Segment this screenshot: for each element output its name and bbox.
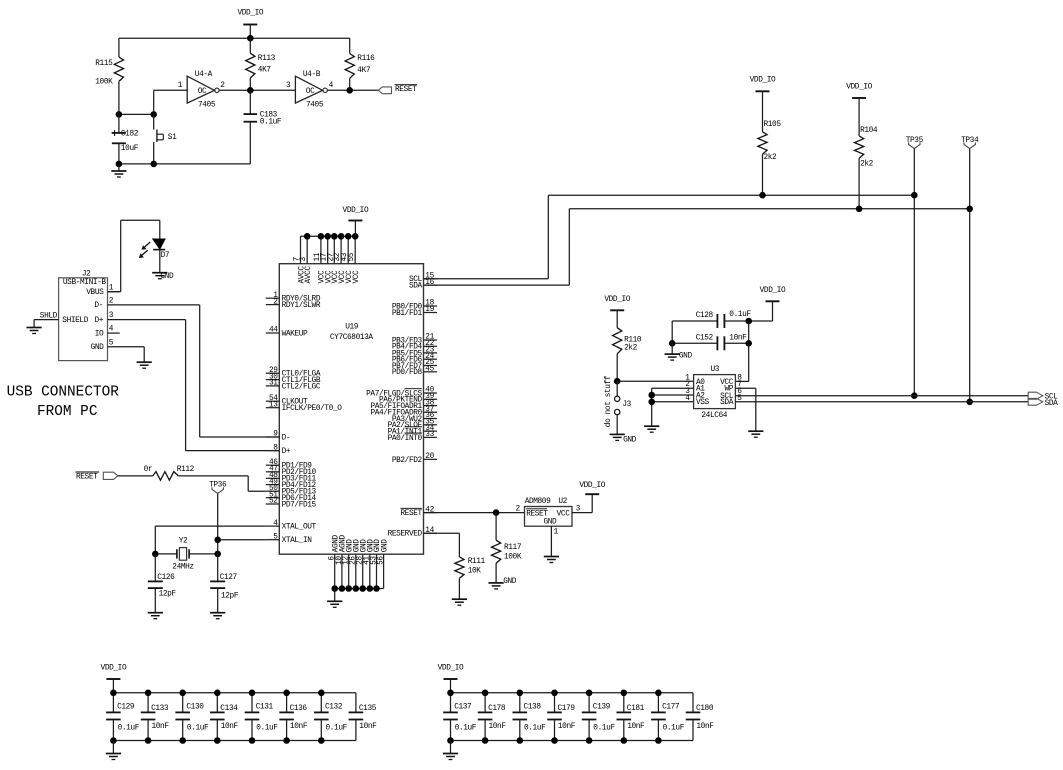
svg-text:VDD_IO: VDD_IO [604, 296, 630, 304]
label USB CONNECTOR [7, 384, 120, 400]
resistor R113 4K7 [246, 38, 276, 90]
svg-text:AVCC: AVCC [305, 266, 313, 284]
svg-text:PB2/FD2: PB2/FD2 [392, 457, 423, 465]
svg-text:7405: 7405 [198, 102, 216, 110]
power symbol VDD_IO (cap bank at x=113) [101, 664, 127, 693]
svg-text:RESERVED: RESERVED [388, 531, 423, 539]
pin 3 label U2 [576, 505, 581, 513]
svg-text:3: 3 [286, 82, 291, 90]
svg-text:VCC: VCC [353, 270, 361, 284]
svg-text:2: 2 [109, 297, 114, 305]
svg-text:SHIELD: SHIELD [62, 317, 88, 325]
svg-text:C139: C139 [593, 704, 611, 712]
pin 5 XTAL_IN (U19 left) [266, 533, 312, 545]
junction R117 top [493, 509, 500, 516]
op-amp U4-B 7405 inverter [295, 71, 327, 110]
svg-text:D+: D+ [94, 317, 103, 325]
svg-text:0.1uF: 0.1uF [187, 725, 209, 733]
capacitor C126 12pF [148, 554, 177, 613]
svg-text:RESET: RESET [395, 86, 417, 94]
svg-text:D-: D- [94, 302, 103, 310]
svg-text:5: 5 [273, 533, 278, 541]
capacitor C128 0.1uF [672, 311, 751, 328]
svg-text:CTL2/FLGC: CTL2/FLGC [282, 383, 321, 391]
pin 23 PB5/FD5 (U19 right) [392, 347, 437, 359]
pin 2 A1 (U3) [652, 381, 706, 393]
svg-text:GND: GND [381, 539, 389, 553]
pin 15 SCL (U19 right) [409, 273, 437, 285]
resistor R104 2k2 [854, 98, 877, 209]
pin 6 SCL (U3) [720, 388, 1028, 401]
capacitor C127 12pF [210, 554, 239, 613]
power symbol VDD_IO (R105) [750, 77, 776, 92]
svg-text:D+: D+ [282, 448, 291, 456]
capacitor C183 0.1uF [244, 90, 282, 164]
op-amp U4-A 7405 inverter [187, 71, 219, 110]
svg-text:RESET: RESET [526, 510, 548, 518]
svg-text:5: 5 [109, 339, 114, 347]
svg-text:VDD_IO: VDD_IO [760, 287, 786, 295]
wire U19 pin14 to R111 [424, 533, 460, 557]
wire VDD_IO bus [119, 37, 350, 39]
svg-text:GND: GND [91, 344, 105, 352]
pin 30 CTL1/FLGB (U19 left) [266, 373, 321, 385]
svg-text:C177: C177 [662, 704, 680, 712]
pin 4 label U4-B [329, 82, 334, 90]
pin 31 CTL2/FLGC (U19 left) [266, 380, 321, 392]
pin 2 D- [94, 297, 199, 310]
pin 1 label U4-A [178, 82, 183, 90]
power symbol VDD_IO (U19) [343, 207, 369, 236]
resistor R112 0r [153, 466, 195, 480]
svg-text:ADM809: ADM809 [525, 498, 551, 506]
pin 37 PA4/FIFOADR0 (U19 right) [370, 406, 437, 418]
wire crystal left [155, 553, 177, 555]
wire XTAL_IN [218, 539, 266, 541]
svg-text:3: 3 [300, 257, 308, 262]
junction dots cap bank top [447, 690, 662, 697]
wire A1/A2/VSS to ground [651, 388, 653, 426]
svg-text:FROM PC: FROM PC [37, 404, 98, 420]
svg-text:GND: GND [679, 352, 693, 360]
wire D+ to chip [186, 320, 280, 451]
svg-text:U19: U19 [345, 324, 359, 332]
test point TP36 [209, 481, 227, 493]
wire LED to ground [159, 250, 161, 273]
svg-text:SDA: SDA [720, 399, 734, 407]
svg-text:10nF: 10nF [152, 723, 170, 731]
svg-text:2k2: 2k2 [764, 154, 778, 162]
pin 2 label U2 [516, 505, 521, 513]
svg-text:C136: C136 [290, 705, 308, 713]
svg-text:D7: D7 [161, 252, 170, 260]
svg-text:5: 5 [737, 395, 742, 403]
pin 4 XTAL_OUT (U19 left) [266, 520, 317, 532]
svg-text:SDA: SDA [409, 283, 423, 291]
svg-text:R113: R113 [258, 55, 276, 63]
ground (C126) [148, 613, 163, 619]
junction dots cap bank top [110, 690, 325, 697]
svg-text:10nF: 10nF [627, 723, 645, 731]
wire C128-C152 right to U3 VCC [735, 321, 748, 381]
svg-text:8: 8 [273, 444, 278, 452]
wire J2 VBUS to LED D7 [108, 220, 160, 291]
svg-text:RESET: RESET [76, 474, 98, 482]
ground (U3 address pins) [644, 426, 659, 432]
svg-text:44: 44 [269, 327, 278, 335]
capacitor C139 0.1uF [582, 693, 616, 741]
svg-text:VCC: VCC [557, 510, 571, 518]
svg-text:WAKEUP: WAKEUP [282, 330, 308, 338]
svg-text:PD0/FD8: PD0/FD8 [392, 369, 423, 377]
svg-text:VDD_IO: VDD_IO [846, 84, 872, 92]
pin 33 PA0/INT0 (U19 right) [388, 431, 437, 443]
svg-text:SHLD: SHLD [40, 312, 58, 320]
junction VSS [648, 399, 655, 406]
svg-text:C133: C133 [151, 705, 169, 713]
svg-text:10nF: 10nF [696, 723, 714, 731]
ground (LED D7) [152, 273, 174, 281]
wire SCL from U19 pin15 [424, 195, 915, 279]
capacitor C177 0.1uF [651, 693, 685, 741]
svg-text:100K: 100K [504, 553, 522, 561]
svg-text:4: 4 [329, 82, 334, 90]
svg-text:R116: R116 [357, 55, 375, 63]
svg-text:VDD_IO: VDD_IO [343, 207, 369, 215]
svg-text:J3: J3 [622, 401, 631, 409]
ground (J2 pin5) [137, 362, 152, 368]
wire D- to chip [200, 305, 280, 437]
svg-text:C126: C126 [157, 574, 175, 582]
capacitor C134 10nF [210, 693, 239, 741]
junction XTAL_IN [214, 537, 221, 544]
junction dots input node [116, 111, 157, 118]
pin 22 PB4/FD4 (U19 right) [392, 340, 437, 352]
svg-text:do not stuff: do not stuff [605, 375, 613, 427]
junction TP35 on U3 SCL [911, 392, 918, 399]
svg-text:20: 20 [425, 453, 434, 461]
wire C128-C152 left [671, 321, 673, 343]
pin numbers (U19 bottom) [329, 556, 386, 565]
svg-text:USB-MINI-B: USB-MINI-B [63, 279, 107, 287]
pin 38 PA5/FIFOADR1 (U19 right) [370, 399, 437, 411]
wire U4-A output to U4-B input [219, 89, 296, 91]
wire WP to ground [755, 388, 757, 431]
svg-text:C129: C129 [117, 704, 135, 712]
pin names AVCC/VCC (U19 top) [298, 266, 361, 284]
pin 52 PD7/FD15 (U19 left) [266, 498, 317, 510]
pin 1 A0 (U3) [685, 374, 705, 386]
SCL off-page tag [1028, 392, 1058, 401]
svg-text:GND: GND [544, 519, 558, 527]
svg-text:R104: R104 [860, 127, 878, 135]
ground (R111) [452, 599, 467, 605]
svg-text:GND: GND [623, 436, 637, 444]
pin 24 PB6/FD6 (U19 right) [392, 353, 437, 365]
pins AVCC/VCC stubs (U19 top) [301, 236, 356, 263]
pin 2 RDY1/SLWR (U19 left) [266, 298, 321, 310]
junction A2 [648, 392, 655, 399]
svg-text:R117: R117 [504, 544, 522, 552]
svg-text:2k2: 2k2 [624, 345, 638, 353]
pin 9 D- (U19 left) [266, 431, 290, 443]
wire U2 VCC to VDD_IO [572, 494, 592, 512]
junction dots bottom wire [116, 161, 157, 168]
svg-text:52: 52 [269, 498, 278, 506]
svg-text:PA0/INT0: PA0/INT0 [388, 435, 423, 443]
wire TP35 down to SCL [913, 149, 915, 396]
svg-text:0.1uF: 0.1uF [326, 725, 348, 733]
IC U3 24LC64 box [694, 366, 736, 420]
wire TP34 down to SDA [969, 149, 971, 402]
svg-text:3: 3 [109, 312, 114, 320]
capacitor C179 10nF [547, 693, 576, 741]
svg-text:1: 1 [109, 285, 114, 293]
svg-text:S1: S1 [168, 134, 177, 142]
svg-text:4K7: 4K7 [258, 67, 272, 75]
power symbol VDD_IO (R104) [846, 84, 872, 98]
svg-text:R105: R105 [764, 121, 782, 129]
svg-text:10nF: 10nF [221, 723, 239, 731]
pin 29 CTL0/FLGA (U19 left) [266, 367, 321, 379]
svg-text:U4-B: U4-B [303, 71, 321, 79]
resistor R111 10K [455, 557, 486, 599]
svg-text:RESET: RESET [400, 510, 422, 518]
RESET input tag [76, 472, 118, 482]
pin 47 PD2/FD10 (U19 left) [266, 466, 317, 478]
junction R105 on SCL [759, 192, 766, 199]
pin 35 PA2/SLOE (U19 right) [388, 419, 437, 431]
switch S1 pushbutton [154, 114, 177, 163]
svg-text:24MHz: 24MHz [172, 564, 194, 572]
svg-text:1: 1 [178, 82, 183, 90]
wire J3 to ground [616, 415, 618, 434]
ground (U2) [544, 557, 559, 563]
ground (U19) [327, 589, 342, 608]
pin 3 label U4-B [286, 82, 291, 90]
pin 45 PD0/FD8 (U19 right) [392, 366, 437, 378]
svg-text:12pF: 12pF [221, 593, 239, 601]
wire crystal right [189, 553, 218, 555]
junction U4-A output node [247, 87, 254, 94]
svg-text:IO: IO [95, 330, 104, 338]
svg-text:C138: C138 [524, 704, 542, 712]
pin 54 CLKOUT (U19 left) [266, 395, 308, 407]
svg-text:VDD_IO: VDD_IO [579, 482, 605, 490]
wire cap bank bottom bus [451, 740, 694, 742]
svg-text:U3: U3 [711, 366, 720, 374]
svg-text:0.1uF: 0.1uF [256, 725, 278, 733]
svg-text:2: 2 [516, 505, 521, 513]
IC U19 CY7C68013A box [279, 264, 423, 555]
pin 19 PB1/FD1 (U19 right) [392, 306, 437, 318]
svg-text:CY7C68013A: CY7C68013A [330, 334, 374, 342]
junction at R113 top [247, 35, 254, 42]
svg-text:45: 45 [425, 366, 434, 374]
svg-text:C152: C152 [696, 335, 714, 343]
resistor R116 4K7 [345, 38, 375, 90]
svg-text:R115: R115 [95, 60, 113, 68]
ground (cap bank) [443, 741, 458, 760]
junction TP34 on U3 SDA [966, 399, 973, 406]
svg-text:USB CONNECTOR: USB CONNECTOR [7, 384, 120, 400]
pin 1 RDY0/SLRD (U19 left) [266, 292, 321, 304]
svg-text:C137: C137 [454, 704, 472, 712]
junction dots cap bank bottom [110, 737, 325, 744]
svg-text:J2: J2 [82, 270, 91, 278]
svg-text:GND: GND [503, 578, 517, 586]
svg-text:VBUS: VBUS [86, 289, 104, 297]
test point TP34 [961, 137, 979, 149]
svg-text:10uF: 10uF [121, 145, 139, 153]
wire GND bus (U19 bottom) [335, 588, 384, 590]
junction R116 bottom [346, 87, 353, 94]
svg-text:SDA: SDA [1045, 400, 1059, 408]
pin 3 D+ [94, 312, 185, 325]
label FROM PC [37, 404, 98, 420]
connector J2 USB-MINI-B box [59, 270, 108, 360]
ground (U3 WP) [748, 431, 763, 437]
svg-text:OC: OC [306, 88, 315, 96]
pin 49 PD4/FD12 (U19 left) [266, 478, 317, 490]
svg-text:C131: C131 [256, 704, 274, 712]
pin 4 IO [95, 326, 120, 339]
pin 39 PA6/PKTEND (U19 right) [379, 393, 437, 405]
wire R110 to U3 A0 [617, 380, 693, 382]
svg-text:C178: C178 [488, 705, 506, 713]
junction C152 right [745, 340, 752, 347]
junction C128 right [745, 318, 752, 325]
pin 20 PB2/FD2 (U19 right) [392, 453, 437, 465]
IC U2 ADM809 [525, 498, 573, 527]
pin 1 label U2 [554, 528, 559, 536]
capacitor C135 10nF [349, 693, 378, 741]
RESET output tag [378, 85, 417, 95]
svg-text:56: 56 [378, 556, 386, 565]
capacitor C180 10nF [686, 693, 715, 741]
pin 7 WP (U3) [724, 381, 755, 393]
svg-text:100K: 100K [95, 78, 113, 86]
pin 18 PB0/FD0 (U19 right) [392, 300, 437, 312]
junction TP35 on SCL bus [911, 192, 918, 199]
capacitor C152 10nF [672, 335, 749, 351]
svg-text:0.1uF: 0.1uF [663, 725, 685, 733]
crystal Y2 24MHz [172, 538, 194, 572]
pin 1 VBUS [86, 285, 119, 298]
svg-text:10nF: 10nF [558, 723, 576, 731]
wire XTAL_OUT [155, 526, 265, 554]
power symbol VDD_IO (reset generator) [237, 10, 263, 39]
capacitor C132 0.1uF [314, 693, 348, 741]
svg-text:10nF: 10nF [729, 335, 747, 343]
pin 2 label U4-A [220, 82, 225, 90]
wire VDD_IO to C128 [749, 301, 773, 321]
svg-text:33: 33 [425, 431, 434, 439]
svg-text:PD7/FD15: PD7/FD15 [282, 501, 317, 509]
pin names AGND/GND (U19 bottom) [332, 534, 389, 552]
capacitor C178 10nF [478, 693, 507, 741]
capacitor C130 0.1uF [175, 693, 209, 741]
svg-text:C180: C180 [696, 705, 714, 713]
junction R104 on SDA [856, 206, 863, 213]
wire VCC bus (U19 top) [301, 235, 356, 237]
svg-text:4K7: 4K7 [357, 67, 371, 75]
svg-text:12pF: 12pF [159, 591, 177, 599]
svg-text:24LC64: 24LC64 [701, 412, 727, 420]
power symbol VDD_IO (R110) [604, 296, 630, 311]
capacitor C137 0.1uF [443, 693, 477, 741]
svg-text:C128: C128 [696, 312, 714, 320]
label 0r [144, 466, 153, 474]
svg-text:2: 2 [220, 82, 225, 90]
ground (cap bank) [106, 741, 121, 760]
svg-text:RDY1/SLWR: RDY1/SLWR [282, 302, 321, 310]
svg-text:VDD_IO: VDD_IO [237, 10, 263, 18]
capacitor C182 10uF polarized [112, 114, 139, 163]
svg-text:0.1uF: 0.1uF [455, 725, 477, 733]
pin 3 A2 (U3) [652, 388, 706, 400]
capacitor C181 10nF [617, 693, 646, 741]
svg-text:OC: OC [198, 88, 207, 96]
svg-text:9: 9 [273, 431, 278, 439]
pin 44 WAKEUP (U19 left) [266, 327, 308, 339]
wire J2 GND down [143, 347, 145, 362]
junction dots VCC bus [304, 233, 359, 240]
pin numbers (U19 top) [294, 252, 357, 261]
wire R115 to C182 [119, 113, 154, 115]
pin 14 RESERVED (U19 right) [388, 527, 437, 539]
svg-text:C181: C181 [627, 705, 645, 713]
wire RESET tag to R112 [118, 475, 153, 477]
wire cap bank top bus [451, 692, 694, 694]
wire U19 pin42 to U2 [424, 512, 525, 514]
pin 5 SDA (U3) [720, 395, 1028, 407]
pin 42 RESET (U19 right) [400, 506, 437, 518]
svg-text:U4-A: U4-A [195, 71, 213, 79]
svg-text:10nF: 10nF [290, 723, 308, 731]
ground (C127) [210, 613, 225, 619]
ground (R117) [489, 578, 517, 589]
svg-text:VDD_IO: VDD_IO [750, 77, 776, 85]
pin 46 PD1/FD9 (U19 left) [266, 459, 312, 471]
wire cap bank bottom bus [113, 740, 356, 742]
svg-text:D-: D- [282, 434, 291, 442]
pin 51 PD6/FD14 (U19 left) [266, 491, 317, 503]
svg-text:PB1/FD1: PB1/FD1 [392, 310, 423, 318]
svg-text:0.1uF: 0.1uF [593, 725, 615, 733]
svg-text:10K: 10K [468, 568, 482, 576]
pin 40 PA7/FLGD/SLCS (U19 right) [366, 387, 437, 399]
wire cap bank top bus [113, 692, 356, 694]
junction dots GND bus [331, 585, 379, 592]
pin 5 GND [91, 339, 145, 352]
svg-text:IFCLK/PE0/T0_O: IFCLK/PE0/T0_O [282, 405, 343, 413]
label do not stuff [605, 375, 613, 427]
svg-text:VDD_IO: VDD_IO [101, 664, 127, 672]
wire U4-B output to RESET tag [327, 89, 378, 91]
svg-text:R111: R111 [468, 558, 486, 566]
svg-text:C127: C127 [220, 574, 238, 582]
svg-text:31: 31 [269, 380, 278, 388]
SDA off-page tag [1028, 398, 1058, 408]
svg-text:R112: R112 [177, 466, 195, 474]
test point TP35 [906, 137, 924, 149]
power symbol VDD_IO (cap bank at x=450) [438, 664, 464, 693]
pin 4 VSS (U3) [652, 395, 710, 407]
LED D7 [139, 239, 170, 260]
junction crystal left [152, 551, 159, 558]
junction crystal right [214, 551, 221, 558]
